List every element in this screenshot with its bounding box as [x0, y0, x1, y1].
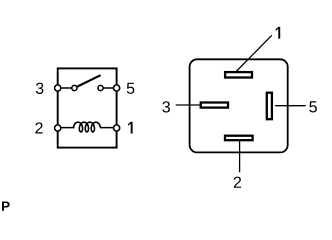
connector body: [190, 59, 288, 152]
label 3: [36, 83, 44, 94]
wire: [100, 127, 117, 129]
wire: [101, 87, 117, 89]
pin 5 slot: [267, 93, 272, 120]
switch contact circle left: [72, 85, 77, 90]
pin 3 slot: [201, 103, 228, 108]
leader line pin 2: [239, 140, 241, 172]
pin 1 slot: [225, 72, 252, 77]
label 5: [127, 83, 135, 94]
pin 2 slot: [225, 136, 253, 141]
label 2: [35, 122, 42, 133]
terminal 3 circle: [55, 85, 61, 91]
switch contact circle right: [98, 85, 103, 90]
label 1: [128, 122, 133, 134]
label 2 (connector): [234, 177, 241, 188]
leader line pin 1: [236, 35, 272, 71]
leader line pin 5: [275, 105, 306, 107]
label 5 (connector): [309, 101, 317, 112]
switch blade: [74, 75, 100, 88]
terminal 2 circle: [55, 125, 61, 131]
relay body outline: [58, 68, 117, 147]
wire: [58, 127, 75, 129]
terminal 1 circle: [114, 125, 120, 131]
terminal 5 circle: [114, 85, 120, 91]
leader line pin 3: [176, 104, 200, 106]
wire: [58, 87, 75, 89]
relay coil L: [73, 122, 100, 132]
page marker P: [2, 202, 10, 211]
label 3 (connector): [162, 101, 170, 112]
label 1 (connector): [276, 27, 281, 39]
